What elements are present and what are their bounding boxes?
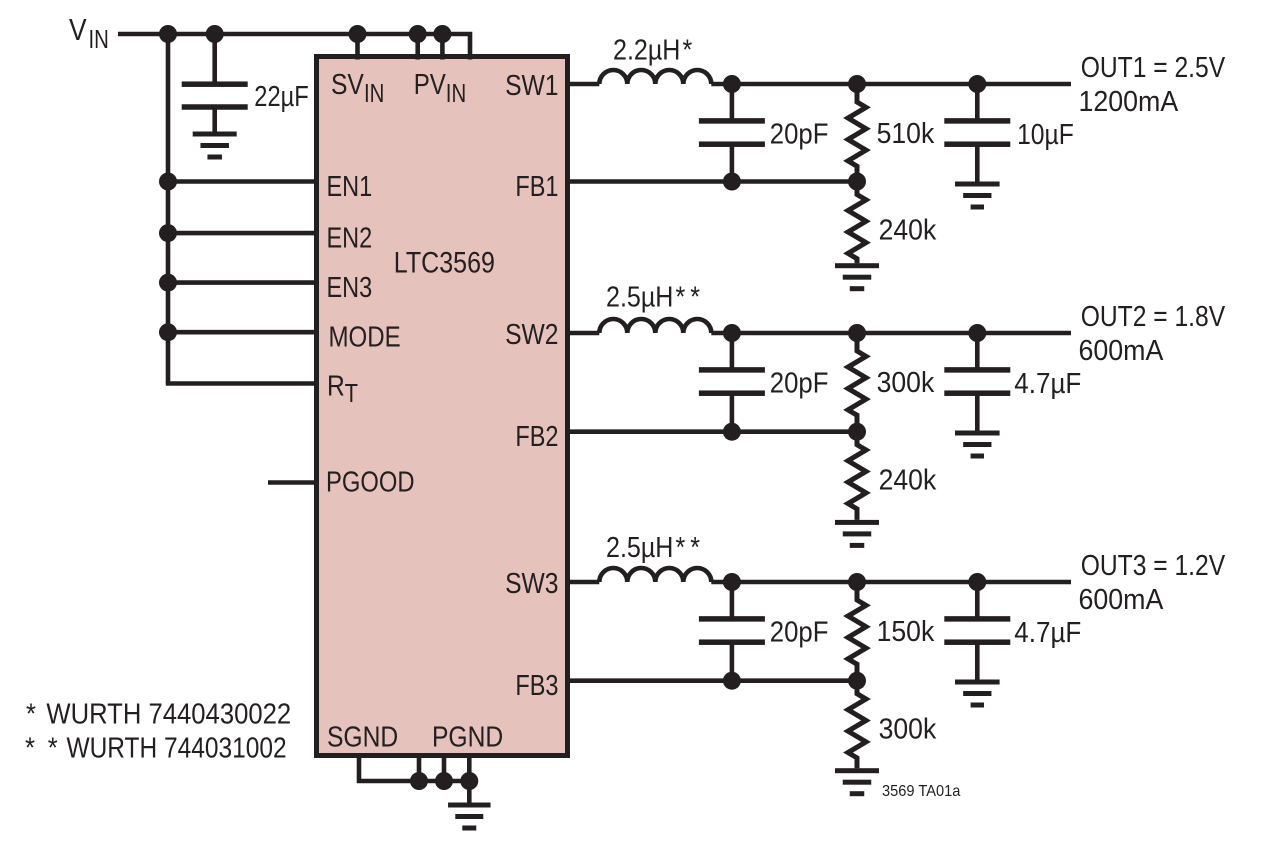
junction OUT1 a xyxy=(723,75,741,93)
wire SW3 to inductor xyxy=(568,580,600,585)
wire SVIN stub xyxy=(355,34,360,60)
svg-text:EN1: EN1 xyxy=(327,170,373,203)
svg-text:OUT2 = 1.8V: OUT2 = 1.8V xyxy=(1081,300,1226,332)
svg-text:PGND: PGND xyxy=(432,721,503,753)
resistor R1b 240k xyxy=(848,182,866,264)
inductor L1 xyxy=(599,70,711,84)
ground PGND xyxy=(448,803,491,808)
svg-text:240k: 240k xyxy=(879,214,937,246)
junction FB1 b xyxy=(848,173,866,191)
resistor R3b 300k xyxy=(848,681,866,769)
svg-text:4.7µF: 4.7µF xyxy=(1014,616,1081,648)
svg-text:150k: 150k xyxy=(877,615,935,647)
junction VIN/C-IN xyxy=(206,25,224,43)
capacitor C-IN 22uF lead xyxy=(212,34,217,82)
svg-text:SW2: SW2 xyxy=(505,318,558,350)
capacitor C3a 20pF xyxy=(730,582,735,617)
svg-text:SW1: SW1 xyxy=(505,69,558,101)
wire FB2 rail xyxy=(568,429,858,434)
IC U1 LTC3569 body xyxy=(317,57,568,756)
svg-text:SGND: SGND xyxy=(327,721,398,753)
wire PGND stub 2 xyxy=(442,756,447,782)
junction OUT2 b xyxy=(848,324,866,342)
wire EN3 xyxy=(168,280,317,285)
junction EN1 xyxy=(159,173,177,191)
junction OUT3 c xyxy=(968,573,986,591)
ground R3b xyxy=(835,768,879,773)
junction FB2 b xyxy=(848,423,866,441)
ground R2b xyxy=(835,520,879,525)
ground C2b xyxy=(955,431,1000,436)
resistor R2b 240k xyxy=(848,432,866,520)
resistor R1a 510k xyxy=(848,84,866,182)
svg-text:EN3: EN3 xyxy=(327,271,373,304)
svg-text:20pF: 20pF xyxy=(770,366,829,399)
wire MODE xyxy=(168,330,317,335)
svg-text:300k: 300k xyxy=(877,366,935,398)
junction gnd 3 xyxy=(460,772,478,790)
svg-text:510k: 510k xyxy=(877,117,935,149)
svg-text:SV: SV xyxy=(331,68,364,100)
svg-text:OUT1 = 2.5V: OUT1 = 2.5V xyxy=(1081,51,1226,83)
junction OUT1 c xyxy=(968,75,986,93)
svg-text:FB2: FB2 xyxy=(515,420,558,453)
wire OUT2 rail xyxy=(711,331,1071,336)
capacitor C1b 10µF xyxy=(975,84,980,119)
junction FB3 b xyxy=(848,672,866,690)
wire left enable bus xyxy=(166,34,171,384)
junction EN2 xyxy=(159,224,177,242)
svg-text:2.5µH * *: 2.5µH * * xyxy=(606,532,701,564)
junction FB3 a xyxy=(723,672,741,690)
svg-text:V: V xyxy=(69,13,87,47)
svg-text:600mA: 600mA xyxy=(1079,583,1164,615)
svg-text:3569 TA01a: 3569 TA01a xyxy=(882,783,961,800)
junction OUT2 c xyxy=(968,324,986,342)
junction EN3 xyxy=(159,274,177,292)
wire SGND L xyxy=(359,756,469,782)
ground C1b xyxy=(955,182,1000,187)
svg-text:1200mA: 1200mA xyxy=(1079,85,1179,117)
junction PVIN 1 xyxy=(409,25,427,43)
junction OUT2 a xyxy=(723,324,741,342)
capacitor C3b 4.7µF xyxy=(975,582,980,617)
svg-text:22µF: 22µF xyxy=(254,80,308,113)
svg-text:4.7µF: 4.7µF xyxy=(1014,367,1081,399)
svg-text:PV: PV xyxy=(414,68,446,100)
junction FB2 a xyxy=(723,423,741,441)
svg-text:*: * xyxy=(26,697,36,730)
svg-text:600mA: 600mA xyxy=(1079,334,1164,366)
svg-text:T: T xyxy=(345,380,358,409)
junction OUT3 b xyxy=(848,573,866,591)
wire RT xyxy=(166,381,317,386)
resistor R2a 300k xyxy=(848,333,866,432)
wire PGND stub 1 xyxy=(417,756,422,782)
svg-text:IN: IN xyxy=(89,25,109,54)
ground C-IN xyxy=(193,132,237,137)
svg-text:EN2: EN2 xyxy=(327,221,373,254)
wire FB1 rail xyxy=(568,179,858,184)
svg-text:2.2µH *: 2.2µH * xyxy=(613,34,693,66)
svg-text:* *: * * xyxy=(25,731,58,764)
wire EN2 xyxy=(168,231,317,236)
inductor L2 xyxy=(599,319,711,333)
wire SW2 to inductor xyxy=(568,331,600,336)
svg-text:20pF: 20pF xyxy=(770,615,829,648)
svg-text:R: R xyxy=(327,370,345,402)
svg-text:2.5µH * *: 2.5µH * * xyxy=(606,281,701,313)
svg-text:LTC3569: LTC3569 xyxy=(394,246,495,280)
junction MODE xyxy=(159,323,177,341)
wire OUT1 rail xyxy=(711,82,1071,87)
svg-text:FB1: FB1 xyxy=(515,170,558,203)
junction SVIN xyxy=(349,25,367,43)
capacitor C2a 20pF xyxy=(730,333,735,368)
junction gnd 2 xyxy=(435,772,453,790)
wire SW1 to inductor xyxy=(568,82,600,87)
svg-text:OUT3 = 1.2V: OUT3 = 1.2V xyxy=(1081,549,1226,581)
wire PVIN stub 2 xyxy=(440,34,445,60)
svg-text:PGOOD: PGOOD xyxy=(326,466,415,499)
svg-text:240k: 240k xyxy=(879,464,937,496)
svg-text:10µF: 10µF xyxy=(1017,118,1074,150)
wire PVIN stub 1 xyxy=(415,34,420,60)
junction gnd 1 xyxy=(410,772,428,790)
wire EN1 xyxy=(168,179,317,184)
resistor R3a 150k xyxy=(848,582,866,681)
junction OUT3 a xyxy=(723,573,741,591)
junction VIN/bus xyxy=(159,25,177,43)
inductor L3 xyxy=(599,568,711,582)
junction PVIN 2 xyxy=(433,25,451,43)
wire FB3 rail xyxy=(568,678,858,683)
ground C3b xyxy=(955,680,1000,685)
svg-text:FB3: FB3 xyxy=(515,669,558,702)
junction OUT1 b xyxy=(848,75,866,93)
ground R1b xyxy=(835,263,879,268)
svg-text:WURTH 7440430022: WURTH 7440430022 xyxy=(46,697,291,730)
wire PGND stub 3 xyxy=(467,756,472,782)
svg-text:20pF: 20pF xyxy=(770,117,829,150)
svg-text:MODE: MODE xyxy=(329,321,401,353)
capacitor C2b 4.7µF xyxy=(975,333,980,368)
wire VIN rail xyxy=(118,34,470,60)
svg-text:IN: IN xyxy=(446,79,466,108)
svg-text:300k: 300k xyxy=(879,713,937,745)
capacitor C1a 20pF xyxy=(730,84,735,119)
svg-text:WURTH 744031002: WURTH 744031002 xyxy=(67,732,287,764)
wire PGOOD stub xyxy=(268,480,317,485)
junction FB1 a xyxy=(723,173,741,191)
svg-text:IN: IN xyxy=(364,79,384,108)
wire OUT3 rail xyxy=(711,580,1071,585)
capacitor C-IN 22uF plates xyxy=(182,81,248,87)
svg-text:SW3: SW3 xyxy=(505,567,558,599)
